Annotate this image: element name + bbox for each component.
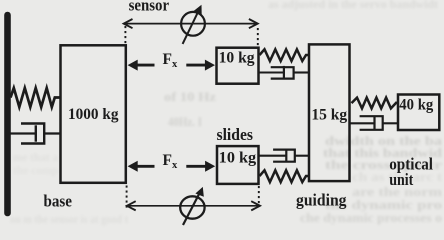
optical unit mass 40 kg box [398,95,439,131]
svg-text:1000 kg: 1000 kg [68,106,119,123]
svg-text:unit: unit [389,170,414,189]
guiding mass 15 kg box [309,44,350,181]
top dotted reference line right [257,28,259,46]
bottom sensor measurement line [128,205,259,207]
bottom sensor dial circle [180,196,204,218]
damper C4 cylinder cup [360,116,383,130]
svg-text:the comp: the comp [13,163,58,177]
bottom sensor left arrowhead [127,201,136,210]
damper C3 bottom : rod [260,155,287,157]
wall (fixed base support) [4,15,11,213]
damper C2 output rod [294,71,309,73]
bottom force arrow left head [128,161,138,172]
top slide mass 10 kg box [217,48,259,84]
svg-text:40Hz. I: 40Hz. I [168,114,202,129]
top force arrow left (into base) [136,64,155,67]
spring K2 top slide to guiding [260,49,309,61]
bottom sensor dial needle [183,193,200,225]
svg-text:che dynamic processes o: che dynamic processes o [300,210,442,225]
svg-text:me that a: me that a [13,150,58,164]
bottom dotted reference line left [126,186,128,211]
top force arrow right head [205,60,215,71]
svg-text:base: base [44,191,73,210]
svg-text:15 kg: 15 kg [311,107,347,124]
bottom force arrow left (into base) [136,165,155,168]
bottom sensor right arrowhead [251,201,260,210]
bottom dotted reference line right [258,186,260,204]
damper C1 cylinder cup [21,124,44,144]
svg-text:as adjusted in the servo bandw: as adjusted in the servo bandwidt [268,0,438,11]
svg-text:of 10 Hz: of 10 Hz [164,89,216,104]
damper C2 cylinder cup [271,67,294,78]
spring K1 wall to base mass [11,88,61,107]
svg-text:guiding: guiding [296,191,347,210]
damper C2 top : rod [260,71,284,73]
spring K3 bottom slide to guiding [260,170,309,182]
top sensor right arrowhead [249,19,258,28]
bottom slide mass 10 kg box [217,146,259,184]
top force arrow right (into slide) [186,64,206,67]
svg-text:slides: slides [217,125,254,144]
damper C4 : rod [351,122,375,124]
top sensor dial circle [181,12,205,36]
bottom sensor needle arrowhead [195,187,203,197]
damper C3 output rod [295,155,309,157]
top dotted reference line left [124,26,126,45]
svg-text:10 kg: 10 kg [219,150,256,167]
svg-text:on m the sensor is at good t: on m the sensor is at good t [10,212,128,226]
damper C3 cylinder cup [273,150,295,162]
top sensor measurement line [125,23,256,25]
damper C4 piston plate [373,117,375,130]
top sensor left arrowhead [124,19,133,28]
damper C1 output rod [44,132,60,134]
spring K4 guiding to optical unit [352,98,397,109]
top force arrow left head [128,60,138,71]
damper C1 piston plate [35,125,37,141]
damper C3 piston plate [285,149,287,163]
top sensor needle arrowhead [194,5,202,15]
base mass 1000 kg box [61,45,126,183]
svg-text:sensor: sensor [129,0,170,14]
bottom force arrow right (into slide) [186,165,206,168]
top sensor dial needle [183,11,199,44]
bottom force arrow right head [205,161,215,172]
svg-text:40 kg: 40 kg [399,97,433,114]
svg-text:10 kg: 10 kg [219,49,255,66]
damper C4 output rod [383,122,397,124]
damper C1 wall to base mass : rod [11,132,36,134]
damper C2 piston plate [283,66,285,80]
